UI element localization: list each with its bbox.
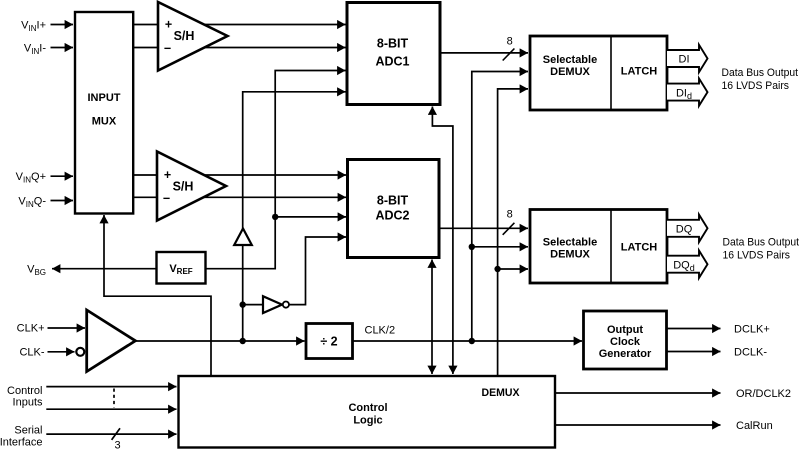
buffer ref triangle: [234, 229, 252, 246]
svg-text:OR/DCLK2: OR/DCLK2: [736, 388, 791, 400]
wire ADC2 to control logic bidirectional: [431, 260, 433, 375]
wire inverter input branch: [243, 304, 263, 306]
op-amp S/H I: [158, 2, 228, 71]
node control inputs ellipsis dashed: [113, 389, 115, 408]
wire VIN Q- input: [51, 200, 74, 202]
wire CLK/2 branch to DEMUX2: [472, 246, 528, 248]
svg-text:DI: DI: [679, 54, 690, 66]
block divide by 2: [306, 324, 353, 359]
svg-text:CLK+: CLK+: [17, 323, 45, 335]
node CLK/2 vertical junction dot: [469, 338, 475, 344]
block ADC1: [347, 3, 440, 105]
wire OR/DCLK2 output: [555, 392, 721, 394]
svg-text:ADC2: ADC2: [375, 209, 409, 223]
block selectable demux 1 + latch 1: [530, 36, 667, 110]
block VREF: [157, 252, 206, 284]
op-amp CLK buffer: [87, 310, 136, 372]
wire MUX select from control logic: [104, 215, 211, 376]
svg-text:Interface: Interface: [0, 436, 43, 448]
svg-text:−: −: [163, 192, 170, 206]
svg-text:Serial: Serial: [14, 425, 42, 437]
wire ADC1 8-bit bus to DEMUX1: [440, 52, 528, 54]
inverter clock: [263, 296, 282, 313]
svg-text:Selectable: Selectable: [543, 237, 597, 249]
svg-text:DEMUX: DEMUX: [550, 66, 590, 78]
wire S/H I output - to ADC1: [133, 47, 346, 49]
svg-text:8: 8: [507, 208, 513, 220]
wire CalRun output: [555, 424, 721, 426]
wire DEMUX control from control logic: [498, 89, 528, 376]
svg-text:÷ 2: ÷ 2: [320, 335, 337, 349]
node CLK- bubble: [76, 348, 84, 356]
wire DCLK+ output: [667, 328, 721, 330]
svg-text:Clock: Clock: [610, 336, 641, 348]
wire ref branch to ADC2: [275, 216, 346, 218]
svg-text:LATCH: LATCH: [621, 66, 658, 78]
wire ADC2 8-bit bus to DEMUX2: [439, 227, 528, 229]
svg-text:CalRun: CalRun: [736, 420, 773, 432]
svg-text:S/H: S/H: [173, 180, 194, 194]
block selectable demux 2 + latch 2: [530, 210, 667, 284]
wire S/H Q output + to ADC2: [133, 174, 346, 176]
wire DEMUX control branch to DEMUX2: [498, 268, 528, 270]
svg-text:Inputs: Inputs: [13, 396, 43, 408]
wire control input 2: [46, 408, 176, 410]
svg-text:Control: Control: [7, 385, 42, 397]
wire sample clock up to ADC1: [243, 92, 346, 341]
svg-text:16 LVDS Pairs: 16 LVDS Pairs: [723, 250, 791, 262]
svg-text:+: +: [164, 168, 171, 182]
node bus slash 8 (bottom): [503, 223, 515, 235]
svg-text:16 LVDS Pairs: 16 LVDS Pairs: [722, 80, 790, 92]
wire VIN I- input: [51, 47, 74, 49]
block control logic: [179, 376, 556, 448]
wire VIN I+ input: [51, 24, 74, 26]
svg-text:Logic: Logic: [353, 415, 382, 427]
svg-text:MUX: MUX: [92, 116, 117, 128]
node DId bus arrow: [667, 78, 708, 105]
wire S/H I output + to ADC1: [133, 24, 346, 26]
wire DCLK- output: [667, 351, 721, 353]
svg-text:Output: Output: [607, 324, 643, 336]
node clock junction dot at inverter branch: [240, 301, 246, 307]
wire control input 1: [46, 386, 176, 388]
wire CLK/2 line to output clock generator: [353, 340, 583, 342]
svg-text:+: +: [165, 18, 172, 32]
wire CLK/2 up to DEMUX1 and DEMUX2: [472, 72, 528, 342]
node DQ bus arrow: [667, 215, 708, 242]
node bus slash 8 (top): [503, 49, 515, 61]
node serial slash 3: [112, 428, 120, 440]
wire inverter output to ADC2: [289, 237, 346, 305]
svg-text:Control: Control: [348, 402, 387, 414]
svg-text:8: 8: [507, 36, 513, 48]
wire serial interface input: [46, 433, 176, 435]
block input mux: [75, 12, 133, 214]
node CLK junction dot: [240, 338, 246, 344]
wire ADC1 to control logic bidirectional: [432, 107, 453, 375]
node ref junction dot: [272, 214, 278, 220]
svg-text:8-BIT: 8-BIT: [377, 194, 409, 208]
wire VREF to ADC1/ADC2 ref net: [206, 71, 346, 269]
svg-text:Generator: Generator: [599, 348, 652, 360]
svg-text:DEMUX: DEMUX: [550, 249, 590, 261]
svg-text:VINQ+: VINQ+: [16, 171, 46, 185]
wire CLK+ input: [48, 327, 86, 329]
svg-text:DQ: DQ: [676, 224, 693, 236]
svg-text:DEMUX: DEMUX: [482, 387, 521, 399]
svg-text:Data Bus Output: Data Bus Output: [723, 237, 800, 249]
wire CLK- input: [48, 351, 75, 353]
svg-text:8-BIT: 8-BIT: [377, 37, 409, 51]
block ADC2: [348, 160, 440, 258]
svg-text:DCLK-: DCLK-: [734, 347, 767, 359]
svg-text:LATCH: LATCH: [621, 242, 658, 254]
svg-text:−: −: [164, 42, 171, 56]
svg-text:Selectable: Selectable: [543, 54, 597, 66]
svg-text:ADC1: ADC1: [375, 55, 409, 69]
svg-text:INPUT: INPUT: [88, 92, 121, 104]
op-amp S/H Q: [157, 152, 226, 221]
svg-text:DCLK+: DCLK+: [734, 324, 770, 336]
node DI bus arrow: [667, 45, 708, 72]
svg-text:3: 3: [115, 439, 121, 451]
node CLK/2 branch dot: [469, 244, 475, 250]
wire CLK main line to divider: [135, 340, 304, 342]
wire VIN Q+ input: [51, 175, 74, 177]
svg-text:CLK/2: CLK/2: [365, 325, 396, 337]
svg-text:Data Bus Output: Data Bus Output: [722, 67, 799, 79]
node DEMUX control branch dot: [494, 266, 500, 272]
svg-text:S/H: S/H: [174, 29, 195, 43]
wire VBG out (from VREF): [52, 268, 157, 270]
wire S/H Q output - to ADC2: [133, 196, 346, 198]
block output clock generator: [584, 311, 667, 369]
svg-text:CLK-: CLK-: [19, 346, 44, 358]
node DQd bus arrow: [667, 251, 708, 278]
